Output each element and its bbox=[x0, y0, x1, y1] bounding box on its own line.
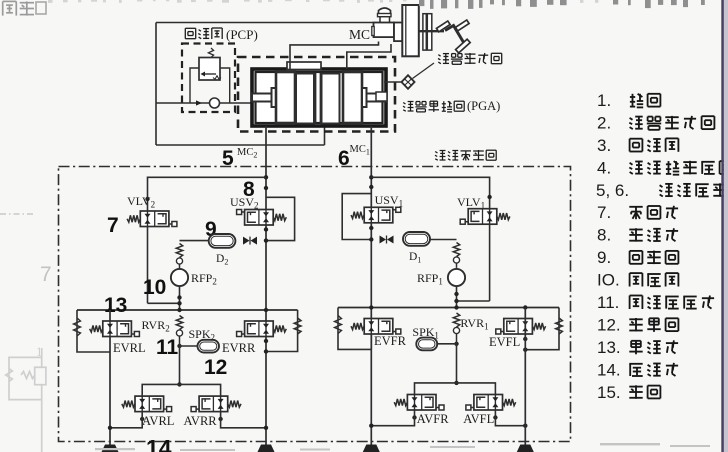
wire front rail bbox=[338, 307, 559, 309]
wire EVFR bypass left bbox=[338, 308, 371, 350]
svg-text:8.: 8. bbox=[597, 226, 611, 245]
label 9 bbox=[205, 218, 217, 241]
svg-text:5, 6.: 5, 6. bbox=[596, 181, 629, 200]
scan artifact top-left 问轮 text bbox=[3, 1, 46, 15]
junction rail-EVRL bbox=[108, 308, 112, 312]
label AVFR bbox=[417, 412, 449, 426]
label RFP1 bbox=[417, 271, 443, 287]
wire SPK1 link bbox=[437, 343, 456, 345]
wire AVFL out bbox=[495, 410, 527, 428]
spring EVFR bypass bbox=[335, 316, 342, 334]
svg-text:AVRR: AVRR bbox=[184, 414, 218, 428]
label EVRR bbox=[222, 341, 256, 355]
master cylinder body bbox=[372, 23, 394, 38]
spring EVFL bypass bbox=[556, 318, 563, 334]
valve EVFL bbox=[496, 319, 546, 335]
wire SPK2 link bbox=[180, 345, 198, 347]
label MC bbox=[349, 27, 370, 42]
wire MC to left chamber bbox=[290, 42, 379, 70]
scan artifact left margin bleed-through bbox=[0, 214, 52, 452]
wire EVFL bypass right bbox=[525, 308, 559, 350]
legend item 12 蓄能器 bbox=[597, 316, 678, 335]
svg-text:AVFR: AVFR bbox=[417, 412, 449, 426]
svg-text:(PCP): (PCP) bbox=[226, 27, 258, 42]
svg-text:EVFL: EVFL bbox=[489, 335, 520, 349]
junction AVFL out bbox=[493, 415, 497, 419]
legend item 14 减压阀 bbox=[597, 360, 678, 379]
svg-text:EVRL: EVRL bbox=[113, 341, 146, 355]
svg-text:10: 10 bbox=[143, 276, 166, 299]
wire branch to VLV2 bbox=[148, 177, 267, 211]
junction AVRL out bbox=[140, 417, 144, 421]
wire AVF branch bbox=[415, 383, 496, 395]
junction rail-RVR1 bbox=[454, 305, 458, 309]
junction VLV1 inlet bbox=[487, 195, 491, 199]
return pump RFP1 bbox=[448, 263, 465, 286]
valve USV2 bbox=[237, 210, 287, 226]
legend item 5，6 液压油路 bbox=[596, 181, 727, 200]
valve VLV1 bbox=[460, 209, 510, 225]
scan artifact right edge strip bbox=[721, 0, 728, 452]
junction USV1 top bbox=[369, 185, 373, 189]
label 压力生成器 (PGA) bbox=[403, 99, 500, 113]
pre-pressure pump PCP dashed enclosure bbox=[182, 44, 235, 113]
wire RFP1 down bbox=[454, 286, 458, 307]
svg-text:AVFL: AVFL bbox=[463, 412, 494, 426]
svg-text:11.: 11. bbox=[597, 293, 619, 312]
PGA right sleeve bbox=[322, 74, 340, 124]
wire AVRR out bbox=[221, 412, 269, 430]
junction MC1 top branch bbox=[369, 175, 373, 179]
leader line pressure sensor bbox=[413, 63, 435, 79]
vacuum booster bbox=[402, 5, 419, 56]
svg-text:4.: 4. bbox=[597, 158, 611, 177]
junction MC2 top branch bbox=[264, 175, 268, 179]
legend item 7 吸入阀 bbox=[597, 203, 678, 222]
wire RFP2 down bbox=[177, 286, 181, 310]
node label 6 MC1 bbox=[338, 144, 370, 170]
svg-text:12: 12 bbox=[204, 356, 227, 379]
valve EVRR bbox=[237, 321, 287, 337]
PGA tandem cylinder body bbox=[252, 69, 386, 126]
damper D2 bbox=[209, 234, 236, 248]
label 12 bbox=[204, 356, 227, 379]
svg-text:MC: MC bbox=[349, 27, 370, 42]
return check RVR1 bbox=[453, 313, 459, 334]
label VLV2 bbox=[127, 194, 155, 210]
check valve (USV1 branch) bbox=[380, 236, 394, 244]
booster mounting plates bbox=[423, 14, 432, 50]
valve USV1 bbox=[351, 207, 401, 223]
label 8 bbox=[243, 178, 255, 201]
wire MC to right chamber bbox=[347, 44, 391, 69]
wire damper line left bbox=[180, 240, 209, 242]
legend item 3 预压泵 bbox=[597, 136, 678, 155]
label D1 bbox=[409, 251, 421, 265]
junction rail-EVFR bbox=[369, 305, 373, 309]
label 14 bbox=[146, 435, 172, 452]
push rod bbox=[419, 30, 444, 32]
svg-text:11: 11 bbox=[156, 336, 179, 359]
legend item 8 限压阀 bbox=[597, 226, 678, 245]
wire rear center down bbox=[179, 346, 181, 384]
check valve (USV2 branch) bbox=[243, 237, 257, 245]
PGA output rod stub bbox=[376, 92, 387, 101]
legend item 11 回流单向阀 bbox=[597, 293, 714, 312]
label USV2 bbox=[230, 195, 259, 211]
wire EVRL through bbox=[109, 310, 111, 445]
wire top box outline (hydraulic control unit frame) bbox=[156, 23, 373, 146]
svg-text:3.: 3. bbox=[597, 136, 611, 155]
suction spring+check to RFP2 bbox=[176, 244, 182, 265]
wheel cylinder RL stub bbox=[102, 445, 119, 452]
pressure sensor symbol bbox=[402, 75, 415, 89]
label 液压调节器 bbox=[435, 150, 496, 161]
junction rail-MC2 bbox=[264, 308, 268, 312]
legend item 13 增压阀 bbox=[597, 338, 678, 357]
legend item 1 主缸 bbox=[597, 91, 660, 110]
label RVR2 bbox=[142, 318, 170, 334]
wire USV1 bypass loop bbox=[342, 194, 371, 240]
PGA top fitting bar bbox=[287, 62, 321, 70]
svg-text:1.: 1. bbox=[597, 91, 611, 110]
junction EVRR bottom bbox=[264, 339, 268, 354]
return check RVR2 bbox=[176, 316, 182, 337]
label 10 bbox=[143, 276, 166, 299]
node label 5 MC2 bbox=[222, 147, 257, 170]
wheel cylinder RR stub bbox=[258, 445, 275, 452]
label RVR1 bbox=[460, 316, 488, 332]
wire MC1 main line bbox=[370, 126, 372, 445]
relief valve square (PCP) bbox=[199, 48, 221, 80]
label 7 bbox=[107, 214, 119, 237]
wire VLV1 down bbox=[457, 224, 490, 301]
junction VLV2 inlet bbox=[145, 197, 149, 201]
scan artifact bottom smudges bbox=[95, 443, 710, 451]
label EVRL bbox=[113, 341, 146, 355]
junction SPK1 node bbox=[454, 334, 458, 346]
wire VLV2 down bbox=[148, 227, 180, 304]
wire AVR branch bbox=[142, 384, 220, 396]
svg-text:IO.: IO. bbox=[597, 271, 620, 290]
svg-text:EVFR: EVFR bbox=[374, 334, 407, 348]
junction AVRR out bbox=[218, 417, 222, 421]
svg-text:(PGA): (PGA) bbox=[467, 99, 500, 113]
valve AVFL bbox=[466, 395, 516, 411]
wire EVFR through bbox=[370, 334, 372, 349]
label AVFL bbox=[463, 412, 494, 426]
PGA left sleeve bbox=[296, 74, 314, 124]
valve VLV2 bbox=[127, 211, 177, 227]
label EVFR bbox=[374, 334, 407, 348]
label SPK2 bbox=[189, 327, 216, 343]
label EVFL bbox=[489, 335, 520, 349]
return pump RFP2 bbox=[171, 264, 188, 286]
junction EVFL bottom bbox=[523, 337, 527, 352]
PGA left piston plate bbox=[276, 72, 295, 123]
svg-text:12.: 12. bbox=[597, 316, 621, 335]
valve EVFR bbox=[351, 319, 401, 335]
svg-text:7: 7 bbox=[40, 263, 52, 286]
spring EVRL bypass bbox=[74, 318, 81, 336]
junction USV1 bottom bbox=[369, 226, 373, 242]
valve AVRR bbox=[191, 396, 241, 412]
label SPK1 bbox=[412, 325, 439, 341]
junction AVFR out bbox=[412, 415, 416, 419]
label D2 bbox=[216, 253, 228, 267]
hydraulic regulator dash-dot enclosure bbox=[59, 167, 571, 442]
wire EVRR bypass right bbox=[266, 310, 298, 352]
svg-text:9.: 9. bbox=[597, 248, 611, 267]
pre-charge pump circle (PCP) bbox=[210, 98, 220, 108]
legend item 2 压力传感器 bbox=[597, 113, 714, 132]
PGA center divider bbox=[316, 73, 321, 124]
pressure generator PGA dashed enclosure bbox=[238, 57, 395, 132]
wire AVRL out bbox=[108, 412, 142, 430]
svg-text:7.: 7. bbox=[597, 203, 611, 222]
junction AVF branch bbox=[454, 381, 458, 385]
svg-text:AVRL: AVRL bbox=[142, 414, 174, 428]
damper D1 bbox=[403, 232, 430, 246]
PGA left piston rod bbox=[252, 88, 276, 107]
PGA right piston plate bbox=[343, 72, 362, 123]
wheel cylinder FR stub bbox=[363, 445, 380, 452]
wire PCP suction line bbox=[156, 100, 252, 105]
svg-text:13.: 13. bbox=[597, 338, 621, 357]
valve AVFR bbox=[394, 395, 444, 411]
junction USV2 bottom bbox=[264, 227, 268, 231]
svg-text:1: 1 bbox=[36, 344, 43, 359]
junction rail-EVFL bbox=[523, 305, 527, 309]
wire damper line right bbox=[430, 239, 457, 241]
wire front center down bbox=[456, 344, 458, 383]
wire EVRL bypass left bbox=[77, 310, 110, 352]
wheel cylinder FL stub bbox=[517, 445, 534, 452]
junction main-damper node bbox=[264, 238, 268, 242]
master cylinder flange bbox=[394, 23, 402, 42]
label AVRR bbox=[184, 414, 218, 428]
label VLV1 bbox=[457, 195, 485, 211]
label 11 bbox=[156, 336, 179, 359]
legend item IO 回油泵 bbox=[597, 271, 678, 290]
junction USV2 top bbox=[264, 186, 268, 190]
scan artifact top edge glyph fragments bbox=[48, 0, 705, 9]
wire branch to VLV1 bbox=[371, 177, 489, 208]
relief valve loop (PCP) bbox=[190, 68, 230, 103]
label 13 bbox=[104, 294, 127, 317]
PGA right piston rod bbox=[362, 88, 386, 107]
svg-text:2.: 2. bbox=[597, 113, 611, 132]
wire EVFL through down bbox=[524, 308, 526, 446]
junction AVR branch bbox=[177, 382, 181, 386]
junction rail-RVR2 bbox=[177, 308, 181, 312]
wire PGA to pressure sensor bbox=[384, 81, 402, 83]
svg-text:14: 14 bbox=[146, 435, 172, 452]
wire rear rail bbox=[77, 309, 298, 311]
svg-text:15.: 15. bbox=[597, 383, 621, 402]
junction SPK2 node bbox=[177, 336, 181, 348]
svg-text:7: 7 bbox=[107, 214, 119, 237]
label 压力传感器 bbox=[438, 53, 502, 64]
brake pedal bbox=[436, 20, 470, 53]
label 预压泵 (PCP) bbox=[185, 27, 257, 42]
spring EVRR bypass bbox=[294, 318, 301, 334]
accumulator SPK1 bbox=[416, 338, 437, 351]
master cylinder reservoir bbox=[378, 8, 392, 23]
wire MC2 main line bbox=[265, 126, 267, 445]
valve AVRL bbox=[122, 396, 172, 412]
wire AVFR out bbox=[369, 410, 414, 428]
wire USV2 bypass loop bbox=[266, 197, 295, 240]
accumulator SPK2 bbox=[198, 340, 220, 353]
svg-text:13: 13 bbox=[104, 294, 127, 317]
legend item 15 轮缸 bbox=[597, 383, 660, 402]
svg-text:14.: 14. bbox=[597, 360, 621, 379]
label AVRL bbox=[142, 414, 174, 428]
label USV1 bbox=[375, 193, 404, 209]
suction spring+check to RFP1 bbox=[453, 243, 459, 264]
legend item 4 液压控制单元 bbox=[597, 158, 728, 177]
svg-text:EVRR: EVRR bbox=[222, 341, 256, 355]
valve EVRL bbox=[90, 321, 140, 337]
legend item 9 阻尼器 bbox=[597, 248, 678, 267]
label RFP2 bbox=[191, 271, 217, 287]
